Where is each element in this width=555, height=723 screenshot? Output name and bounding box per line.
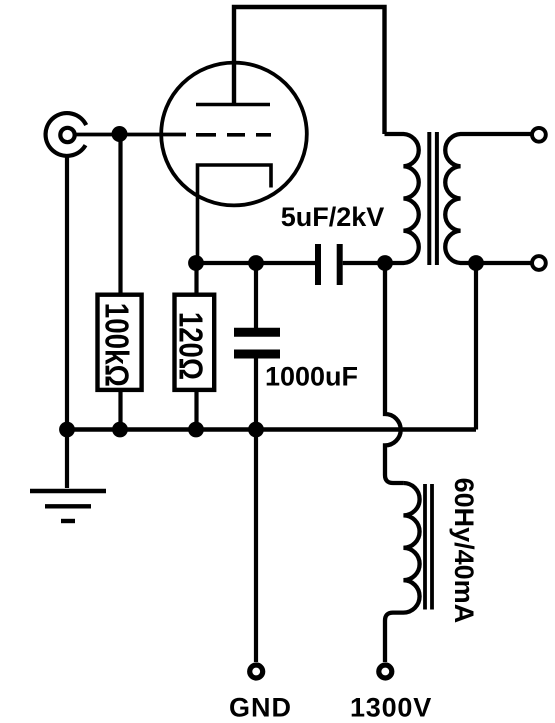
wire: C2 bottom lead to ground bus [254, 358, 258, 429]
node: bus dot at R1 [112, 422, 128, 438]
svg-text:1000uF: 1000uF [265, 362, 358, 392]
tube V1 grid (dashed) [196, 133, 271, 137]
tube V1 envelope [161, 63, 307, 206]
node: bus dot at R2 [188, 422, 204, 438]
capacitor C2 1000uF bottom plate [234, 350, 280, 359]
resistor R2 body (120) [175, 295, 215, 390]
tube V1 plate bar [196, 103, 270, 106]
wire: C1 right plate to B+ node [343, 261, 385, 265]
terminal: GND [250, 665, 263, 678]
svg-text:120Ω: 120Ω [171, 312, 208, 380]
wire: connector shell down to ground bus [65, 154, 69, 429]
svg-text:5uF/2kV: 5uF/2kV [281, 202, 385, 232]
wire: cathode junction to R2 [194, 263, 198, 294]
inductor L1 core line 2 [430, 484, 434, 610]
node: bus dot at ground symbol [59, 422, 75, 438]
node: B+ junction dot (primary bottom / C1 / choke) [377, 255, 393, 271]
wire: cathode row (cathode to C1 left plate) [196, 261, 315, 265]
wire: B+ node down with hop over ground bus [385, 263, 403, 483]
svg-text:60Hy/40mA: 60Hy/40mA [449, 478, 479, 624]
node: grid junction dot [112, 126, 128, 142]
capacitor C1 5uF/2kV left plate [315, 244, 321, 285]
wire: connector pin to grid [75, 133, 186, 137]
wire: secondary bottom down to ground bus [474, 263, 478, 430]
svg-text:GND: GND [229, 693, 292, 723]
wire: R2 to ground bus [194, 390, 198, 429]
transformer T1 secondary winding [445, 134, 531, 263]
tube V1 cathode [198, 165, 272, 263]
capacitor C1 5uF/2kV right plate [337, 244, 343, 285]
wire: plate lead to transformer primary top (top bus) [234, 7, 385, 134]
input connector J1 center pin [60, 128, 74, 142]
wire: grid junction down to R1 [118, 134, 122, 294]
ground symbol bar 1 [30, 489, 106, 493]
transformer T1 primary winding [385, 134, 419, 263]
transformer T1 core line 1 [427, 132, 431, 265]
ground symbol bar 3 [61, 519, 75, 523]
svg-text:100kΩ: 100kΩ [98, 303, 135, 387]
terminal: output top [532, 128, 546, 142]
resistor R1 body (100k) [98, 295, 142, 390]
node: bus dot at C2/GND lead [248, 422, 264, 438]
terminal: 1300V [379, 665, 392, 678]
wire: GND lead (bus to terminal) [254, 430, 258, 663]
terminal: output bottom [532, 256, 546, 270]
svg-text:1300V: 1300V [350, 693, 432, 723]
wire: R1 to ground bus [118, 390, 122, 429]
inductor L1 core line 1 [423, 484, 427, 610]
ground symbol bar 2 [45, 504, 91, 508]
input connector J1 outer shell [46, 113, 87, 156]
transformer T1 core line 2 [435, 132, 439, 265]
wire: ground bus [67, 427, 476, 431]
node: secondary bottom junction dot [468, 255, 484, 271]
capacitor C2 1000uF top plate [234, 328, 280, 337]
node: C2 top junction dot [248, 255, 264, 271]
node: cathode junction dot [188, 255, 204, 271]
wire: bus to earth ground symbol [65, 430, 69, 489]
wire: C2 top lead [254, 263, 258, 329]
inductor L1 choke winding [385, 483, 420, 662]
